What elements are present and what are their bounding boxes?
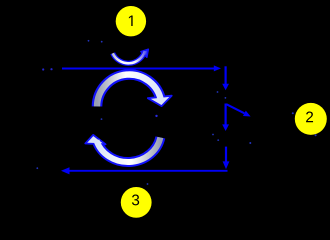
arrowhead bottom-left xyxy=(61,167,70,174)
curved arrow big top: light core xyxy=(97,75,161,107)
arrowhead down 2 xyxy=(222,124,229,131)
node dot B xyxy=(50,68,52,70)
node 3 label xyxy=(132,195,139,206)
arrowhead down 3 xyxy=(223,161,230,169)
wire diagonal to node 2 xyxy=(226,104,244,113)
arrowhead down 1 xyxy=(222,84,229,90)
curved arrow big bottom: arrowhead xyxy=(85,135,105,144)
wire bottom horizontal xyxy=(69,170,228,172)
stray dot specks xyxy=(36,40,316,185)
arrowhead top-right xyxy=(214,65,221,71)
curved arrow small top: arrowhead xyxy=(141,49,148,57)
wire vertical segment 3 xyxy=(225,147,227,162)
curved arrow small top: light core xyxy=(113,51,145,63)
curved arrow small top (counterclockwise): blue band xyxy=(113,52,145,63)
node dot A xyxy=(42,68,44,70)
node 3 circle xyxy=(121,187,152,218)
node 2 label xyxy=(306,112,313,123)
node 2 circle xyxy=(295,103,327,135)
wire vertical segment 1 xyxy=(225,66,227,84)
wire vertical segment 2 xyxy=(225,104,227,126)
curved arrow big bottom (clockwise return): blue band xyxy=(97,137,160,162)
curved arrow big top (clockwise arch): blue band xyxy=(97,75,161,107)
node 1 circle xyxy=(116,6,146,36)
curved arrow big top: arrowhead xyxy=(148,96,172,106)
curved arrow big bottom: light core xyxy=(96,137,160,162)
wire top horizontal xyxy=(62,68,214,70)
node 1 label xyxy=(129,15,133,26)
arrowhead diagonal xyxy=(243,111,251,117)
